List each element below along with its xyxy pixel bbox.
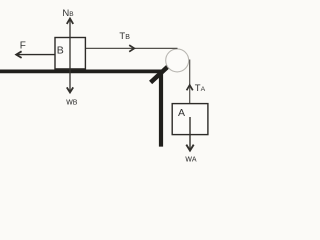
block A bbox=[172, 104, 208, 135]
svg-text:NB: NB bbox=[62, 8, 74, 19]
wire rope from block B to pulley bbox=[85, 47, 177, 49]
svg-text:TA: TA bbox=[195, 83, 206, 94]
table surface bbox=[0, 70, 163, 74]
weight wB arrow bbox=[67, 71, 73, 92]
svg-text:A: A bbox=[178, 107, 185, 119]
applied force F arrow bbox=[16, 51, 55, 58]
weight wA arrow bbox=[186, 117, 193, 151]
normal force NB arrow bbox=[67, 19, 73, 72]
svg-text:TB: TB bbox=[119, 31, 130, 42]
wire rope from pulley down to block A bbox=[189, 60, 191, 104]
pulley bbox=[166, 49, 189, 72]
pulley bracket bbox=[151, 66, 168, 82]
svg-text:B: B bbox=[57, 45, 64, 57]
tension TB arrowhead bbox=[129, 45, 134, 52]
svg-text:wA: wA bbox=[184, 154, 197, 164]
tension TA arrowhead bbox=[187, 85, 193, 90]
table leg bbox=[159, 70, 163, 147]
block B bbox=[55, 38, 85, 69]
svg-text:wB: wB bbox=[65, 96, 78, 106]
svg-text:F: F bbox=[20, 41, 26, 52]
